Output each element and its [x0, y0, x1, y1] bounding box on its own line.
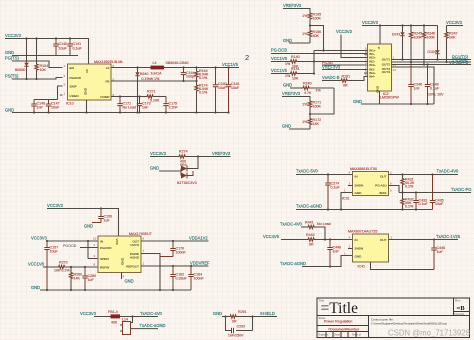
svg-text:GND: GND	[283, 38, 292, 43]
svg-text:VCC1V8: VCC1V8	[28, 262, 45, 267]
svg-text:L4: L4	[153, 61, 157, 65]
resistor R280	[69, 267, 82, 290]
capacitor C173	[137, 97, 151, 113]
svg-text:SB5040-CB40: SB5040-CB40	[166, 61, 189, 65]
zener D270 dual	[177, 157, 198, 186]
svg-text:SHIELD: SHIELD	[260, 311, 275, 316]
svg-text:OUT: OUT	[380, 238, 387, 242]
resistor R245	[409, 26, 422, 64]
svg-text:R441: R441	[305, 221, 314, 225]
svg-text:0.1%: 0.1%	[199, 91, 208, 95]
wire GND bottom rail	[12, 112, 229, 114]
capacitor C433	[413, 191, 428, 209]
wire PS-4G row	[322, 64, 368, 66]
resistor R271	[146, 90, 166, 103]
wire sense vertical	[313, 51, 315, 74]
op-amp regulator U1 body	[68, 64, 112, 100]
svg-text:IC10: IC10	[66, 102, 74, 106]
svg-text:TxADC-PG: TxADC-PG	[451, 187, 471, 192]
pin numbers IC5	[93, 237, 145, 279]
svg-text:10: 10	[93, 237, 97, 241]
svg-text:VDDA1V2: VDDA1V2	[189, 236, 208, 241]
wire net-tie out	[131, 328, 159, 330]
svg-text:TxADC-4V0: TxADC-4V0	[140, 311, 163, 316]
svg-text:TxADC-5V0: TxADC-5V0	[296, 169, 319, 174]
svg-text:VCC1V5: VCC1V5	[222, 62, 239, 67]
svg-text:BIAS: BIAS	[379, 191, 386, 195]
svg-text:5: 5	[378, 46, 380, 50]
svg-text:10K 0.1%: 10K 0.1%	[54, 269, 70, 273]
svg-text:1uF: 1uF	[437, 250, 444, 254]
svg-text:Rev: Rev	[455, 299, 461, 303]
svg-text:1nF/250V: 1nF/250V	[228, 334, 244, 338]
svg-text:0.1%W 1%: 0.1%W 1%	[142, 77, 161, 81]
svg-text:SHDN: SHDN	[355, 184, 364, 188]
svg-text:100nF: 100nF	[194, 277, 205, 281]
svg-text:MAX1793EUT: MAX1793EUT	[129, 232, 153, 236]
diode D140 (B340)	[135, 68, 148, 113]
svg-text:0R: 0R	[309, 243, 314, 247]
junction dots COMP	[119, 95, 141, 97]
svg-text:4.7K: 4.7K	[304, 91, 312, 95]
resistor R141	[271, 67, 314, 81]
svg-text:2.2nF: 2.2nF	[169, 106, 179, 110]
svg-text:IN: IN	[100, 239, 103, 243]
svg-text:=DocumentNumber: =DocumentNumber	[328, 328, 360, 332]
svg-text:=B: =B	[457, 305, 466, 312]
svg-text:PGOOD: PGOOD	[70, 76, 82, 80]
svg-text:1%: 1%	[302, 103, 308, 107]
svg-text:100K: 100K	[414, 36, 423, 40]
svg-text:VREF3V3: VREF3V3	[322, 65, 341, 70]
svg-text:SHDN: SHDN	[355, 247, 364, 251]
wire shdn tie	[88, 241, 98, 259]
resistor R105	[302, 12, 321, 30]
svg-text:D241: D241	[392, 33, 401, 37]
svg-text:GND: GND	[84, 88, 88, 96]
wire VREF3V3 divider2	[282, 97, 310, 101]
junction divider mid	[309, 24, 311, 26]
svg-text:IC31: IC31	[342, 197, 350, 201]
svg-text:TxADC-aGND: TxADC-aGND	[296, 204, 322, 209]
svg-text:1nF: 1nF	[37, 106, 44, 110]
svg-text:L14: L14	[122, 318, 128, 322]
svg-text:TxADC-aGND: TxADC-aGND	[280, 261, 306, 266]
svg-text:0.1uF: 0.1uF	[331, 186, 341, 190]
svg-text:0.1uF: 0.1uF	[430, 87, 440, 91]
diode D104	[15, 39, 29, 80]
wire GND divider2	[289, 128, 310, 130]
resistor R161	[322, 75, 368, 88]
resistor R240	[290, 82, 334, 96]
capacitor C292	[226, 317, 253, 338]
wire COMP line	[111, 96, 166, 98]
svg-text:CSDN @mo_71713928: CSDN @mo_71713928	[388, 329, 470, 338]
wire adc reg in	[47, 240, 98, 242]
resistor R441	[301, 221, 331, 240]
junction out row	[172, 240, 174, 242]
svg-text:5.10K: 5.10K	[150, 99, 160, 103]
wire divider mid to comparator	[310, 26, 324, 51]
svg-text:R141: R141	[291, 67, 300, 71]
svg-text:C141: C141	[73, 42, 82, 46]
svg-text:100K: 100K	[313, 17, 322, 21]
svg-text:0.1uF: 0.1uF	[419, 202, 429, 206]
capacitor C175	[163, 97, 178, 113]
junction sense	[313, 60, 315, 74]
pin stubs IC2	[364, 51, 395, 77]
svg-text:PG-DCB: PG-DCB	[271, 48, 287, 53]
svg-text:COMP: COMP	[100, 95, 109, 99]
svg-text:100nF: 100nF	[176, 251, 187, 255]
svg-text:OUT2: OUT2	[382, 63, 391, 67]
junction dots gnd rail adc	[46, 289, 174, 291]
svg-text:GND: GND	[5, 50, 14, 55]
svg-text:VsADC-B: VsADC-B	[322, 75, 340, 80]
svg-text:Drawn:: Drawn:	[334, 334, 342, 337]
wire COMP pin stub	[111, 96, 120, 98]
svg-text:IC41: IC41	[358, 265, 366, 269]
svg-text:OUTS: OUTS	[130, 243, 139, 247]
junction dots FB line	[182, 80, 197, 82]
svg-text:0R: 0R	[343, 84, 348, 88]
svg-text:LM2901PW: LM2901PW	[380, 96, 399, 100]
wire IC31 OUT line	[389, 174, 459, 176]
svg-text:2: 2	[245, 53, 249, 62]
resistor R104	[35, 39, 48, 80]
svg-text:PS(TS): PS(TS)	[5, 74, 19, 79]
svg-text:C140: C140	[59, 42, 68, 46]
pin names IC41	[355, 238, 387, 259]
junction IC41 out	[433, 238, 435, 240]
svg-text:1nF: 1nF	[142, 106, 149, 110]
wire PG-DCB row	[271, 53, 368, 55]
svg-text:100K: 100K	[427, 36, 436, 40]
svg-text:TxADC-4V0: TxADC-4V0	[280, 222, 303, 227]
svg-text:R140: R140	[291, 55, 300, 59]
regulator IC5 body	[98, 236, 141, 273]
svg-text:EN: EN	[70, 66, 74, 70]
wire IC2 V+ pin	[379, 26, 381, 45]
svg-text:GND: GND	[353, 99, 362, 104]
capacitor C440	[327, 240, 341, 267]
capacitor C435	[430, 175, 444, 210]
svg-text:1%: 1%	[316, 89, 322, 93]
svg-text:R240: R240	[303, 82, 312, 86]
pin names IC31	[355, 175, 387, 195]
resistor R432	[401, 193, 414, 210]
wire OUT1 line	[392, 59, 472, 61]
svg-text:40K: 40K	[313, 34, 320, 38]
svg-text:IN: IN	[355, 175, 358, 179]
junction ferrite out	[131, 315, 133, 317]
wire FB line	[111, 80, 197, 82]
svg-text:VCC3V3: VCC3V3	[150, 151, 167, 156]
capacitor C446	[431, 240, 445, 270]
svg-text:0.33uF: 0.33uF	[176, 277, 188, 281]
svg-text:R270: R270	[59, 261, 68, 265]
svg-text:VREF3V3: VREF3V3	[212, 151, 231, 156]
svg-text:400: 400	[111, 321, 117, 325]
junction dots pull-up rail	[379, 24, 425, 26]
svg-text:10K: 10K	[449, 36, 456, 40]
junction dots aGND	[327, 208, 417, 210]
capacitor C171	[117, 97, 136, 113]
capacitor C248	[425, 63, 440, 104]
ferrite bead FB1-4	[108, 310, 120, 325]
wire OUT2 line	[392, 61, 472, 63]
svg-text:FB: FB	[106, 80, 110, 84]
pin numbers IC41	[344, 236, 393, 256]
svg-text:R274: R274	[179, 150, 188, 154]
wire pgood	[80, 247, 98, 249]
resistor R140	[271, 55, 368, 69]
svg-text:VREF3V3: VREF3V3	[283, 3, 302, 8]
svg-text:Power Regulation: Power Regulation	[324, 320, 352, 324]
wire IC5 out row	[141, 240, 209, 242]
svg-text:1%: 1%	[285, 62, 291, 66]
wire ferrite in	[94, 316, 111, 318]
svg-text:0.1%: 0.1%	[199, 76, 208, 80]
regulator IC31 body	[353, 172, 389, 196]
wire U1 GND pin to rail	[86, 100, 88, 113]
svg-text:C:\Users\Duglaane\Desktop\Temp: C:\Users\Duglaane\Desktop\Templates\Shee…	[371, 322, 447, 326]
capacitor C141	[67, 39, 82, 56]
svg-text:GND: GND	[150, 166, 159, 171]
svg-text:PG-ADJ: PG-ADJ	[375, 184, 387, 188]
svg-text:MAX6071AAUT25: MAX6071AAUT25	[348, 230, 377, 234]
junction vref	[197, 155, 199, 157]
svg-text:10uF: 10uF	[51, 106, 60, 110]
wire IC2 gnd rail	[361, 103, 434, 105]
svg-text:1nF: 1nF	[333, 250, 340, 254]
wire LX output line	[111, 67, 239, 69]
svg-text:VS-SDA-B: VS-SDA-B	[449, 60, 469, 65]
junction refout row	[172, 265, 192, 267]
svg-text:VCC3V3: VCC3V3	[362, 20, 379, 25]
svg-text:TxADC-aGND: TxADC-aGND	[140, 323, 166, 328]
comparator IC2 body	[368, 44, 392, 91]
svg-text:=Title: =Title	[321, 300, 359, 317]
capacitor C181	[226, 68, 240, 113]
svg-text:14K: 14K	[313, 122, 320, 126]
junction adc reg in	[46, 240, 89, 242]
svg-text:REFIN: REFIN	[100, 265, 109, 269]
svg-text:0.1%: 0.1%	[405, 185, 414, 189]
svg-text:0R4: 0R4	[180, 163, 187, 167]
svg-text:GND: GND	[5, 108, 14, 113]
svg-text:Engineer:: Engineer:	[319, 334, 330, 337]
wire IC41 shdn stub	[348, 248, 353, 250]
capacitor C162	[170, 266, 187, 290]
capacitor C146	[31, 100, 45, 113]
wire comparator pin1 row	[314, 50, 368, 52]
svg-text:10K: 10K	[292, 77, 299, 81]
svg-text:10uF: 10uF	[59, 47, 68, 51]
title block frame	[317, 298, 470, 338]
svg-text:AGND: AGND	[130, 256, 140, 260]
svg-text:R271: R271	[147, 90, 156, 94]
resistor R442	[281, 233, 353, 247]
svg-text:0.1%: 0.1%	[405, 205, 414, 209]
pin numbers U1	[64, 64, 115, 97]
svg-text:VCC3V3: VCC3V3	[31, 236, 48, 241]
svg-text:IN4-: IN4-	[369, 75, 375, 79]
junction aGND ref	[329, 265, 331, 267]
svg-text:B340: B340	[140, 72, 148, 76]
wire VCC3V3 drop	[341, 35, 368, 58]
capacitor C157	[44, 241, 58, 290]
svg-text:OUT4: OUT4	[382, 70, 391, 74]
capacitor C280	[82, 267, 96, 290]
svg-text:R291: R291	[238, 310, 247, 314]
svg-text:GND: GND	[355, 191, 363, 195]
junction dots bottom rail	[33, 111, 230, 113]
svg-text:1nF: 1nF	[414, 87, 421, 91]
wire aGND ref	[302, 256, 353, 267]
svg-text:REFOUT: REFOUT	[126, 264, 139, 268]
svg-text:LS/EN: LS/EN	[70, 94, 79, 98]
svg-text:VCC3V3: VCC3V3	[5, 33, 22, 38]
junction dots LX line	[136, 66, 229, 68]
svg-text:Sheet of: Sheet of	[352, 334, 361, 337]
svg-text:SHDN: SHDN	[100, 257, 109, 261]
capacitor C150	[92, 209, 112, 223]
svg-text:OUT1: OUT1	[382, 58, 391, 62]
svg-text:OUT: OUT	[380, 175, 387, 179]
svg-text:R161: R161	[342, 75, 351, 79]
resistor R172	[302, 118, 321, 130]
svg-text:TxADC-1V25: TxADC-1V25	[436, 234, 461, 239]
junction PG-ADJ	[401, 191, 403, 193]
pin numbers IC31	[344, 171, 392, 193]
pin names IC5	[100, 239, 140, 270]
svg-text:VCC3V3: VCC3V3	[47, 203, 64, 208]
wire VREF3V3 to divider	[283, 9, 310, 13]
svg-text:IN3+: IN3+	[369, 63, 376, 67]
capacitor C246	[408, 62, 422, 104]
svg-text:MAX1692EUB-ML: MAX1692EUB-ML	[94, 60, 123, 64]
pin numbers IC2	[365, 47, 396, 77]
resistor R291	[222, 310, 253, 324]
svg-text:GND: GND	[376, 86, 380, 94]
svg-text:GND: GND	[125, 279, 134, 284]
junction refin row	[70, 266, 86, 268]
wire OUT3 line	[392, 64, 472, 66]
svg-text:IN: IN	[355, 238, 358, 242]
resistor R171	[302, 100, 321, 118]
resistor R164	[195, 68, 209, 82]
diode D241	[392, 26, 405, 61]
svg-text:14: 14	[393, 68, 397, 72]
wire VCC3V3 rail	[5, 39, 89, 65]
resistor R246	[422, 26, 435, 66]
svg-text:GND: GND	[84, 224, 93, 229]
wire GND divider	[289, 42, 310, 44]
pin names IC2	[369, 46, 390, 94]
svg-text:0R: 0R	[232, 320, 237, 324]
svg-text:R442: R442	[306, 233, 315, 237]
wire SKIP pin	[58, 86, 63, 100]
junction dots gnd rail right	[410, 103, 429, 105]
capacitor C164	[181, 68, 197, 82]
svg-text:1%: 1%	[302, 120, 308, 124]
svg-text:10K: 10K	[40, 68, 47, 72]
svg-text:MAX8881EUT50: MAX8881EUT50	[350, 167, 377, 171]
svg-text:GND: GND	[283, 83, 292, 88]
svg-text:GND: GND	[31, 285, 40, 290]
svg-text:No Lead: No Lead	[123, 106, 137, 110]
inductor L4	[151, 61, 165, 76]
svg-text:VDDVREF: VDDVREF	[190, 261, 210, 266]
svg-text:VREF3V3: VREF3V3	[282, 91, 301, 96]
svg-text:No Lead: No Lead	[317, 222, 331, 226]
wire VREF3V3 row to pin	[322, 69, 368, 71]
wire agnd pin	[141, 254, 160, 291]
svg-text:1uF: 1uF	[88, 278, 95, 282]
svg-text:GND: GND	[213, 311, 222, 316]
svg-text:Cannot open file:: Cannot open file:	[371, 318, 394, 322]
capacitor C140	[53, 39, 67, 56]
svg-text:VCC1V8: VCC1V8	[271, 56, 288, 61]
svg-text:VCC1V5: VCC1V5	[271, 68, 288, 73]
svg-text:1uH1A: 1uH1A	[151, 72, 163, 76]
svg-text:1%: 1%	[302, 32, 308, 36]
wire IC31 shdn stub	[348, 185, 353, 187]
svg-text:14K: 14K	[74, 277, 81, 281]
svg-text:10uF: 10uF	[218, 86, 227, 90]
svg-text:D104: D104	[427, 50, 436, 54]
resistor R174	[195, 81, 209, 113]
svg-text:1uF: 1uF	[104, 219, 111, 223]
svg-text:SKIP: SKIP	[70, 85, 77, 89]
net-tie L14	[120, 317, 133, 335]
wire gnd rail adc	[40, 289, 191, 291]
capacitor C274	[325, 175, 340, 210]
svg-text:VCC3V3: VCC3V3	[446, 20, 463, 25]
svg-text:10: 10	[365, 73, 369, 77]
svg-text:FB1-4: FB1-4	[108, 310, 118, 314]
capacitor C147	[46, 100, 60, 113]
junction pin1 row	[322, 49, 324, 51]
svg-text:IN: IN	[85, 70, 89, 73]
resistor R270	[43, 261, 98, 273]
svg-text:C292: C292	[237, 325, 246, 329]
wire adc reg top	[47, 209, 119, 237]
resistor R106	[302, 30, 321, 44]
svg-text:PGOOD: PGOOD	[100, 246, 112, 250]
pin names U1	[70, 66, 110, 99]
svg-text:LX: LX	[106, 66, 110, 70]
capacitor C180	[213, 68, 227, 113]
svg-text:VCC3V3: VCC3V3	[80, 311, 97, 316]
resistor R431	[401, 175, 415, 193]
wire PS(TS) to PGOOD pin	[12, 78, 63, 80]
svg-text:VCC3V3: VCC3V3	[336, 29, 353, 34]
wire R240 vertical to divider2	[310, 88, 334, 114]
svg-text:BZT52C3V3: BZT52C3V3	[177, 181, 197, 185]
wire IC5 bottom gnd	[121, 273, 123, 280]
wire pull-up rail	[362, 25, 438, 27]
wire GND to zener	[159, 170, 181, 172]
wire aGND rail	[296, 209, 433, 211]
junction ldo input	[327, 173, 329, 175]
svg-text:GND: GND	[121, 258, 125, 266]
svg-text:10uF: 10uF	[435, 202, 444, 206]
junction adc reg top	[100, 207, 102, 209]
resistor R274	[150, 150, 231, 168]
svg-text:10uF: 10uF	[231, 86, 240, 90]
